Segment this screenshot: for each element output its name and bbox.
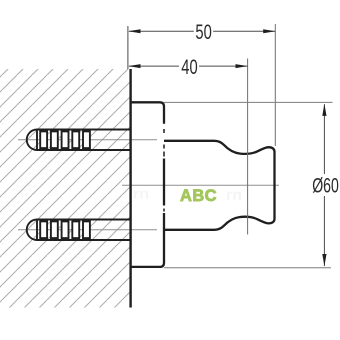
screw S2 (wall anchor, bottom) [27, 220, 131, 241]
dim 50 arrows [128, 29, 275, 33]
wall face line [129, 69, 131, 308]
dim 40 arrows [128, 64, 248, 68]
svg-text:ABC: ABC [180, 186, 217, 205]
extension line for 50 [274, 24, 276, 146]
wall (hatched section) [0, 69, 131, 308]
extension line for 40 [247, 59, 249, 235]
dim 50 line [129, 30, 275, 32]
flange plate (wall plate of holder) [131, 102, 164, 267]
dim D60 line [323, 104, 325, 266]
screw S1 centerline [18, 139, 157, 141]
dim 40 line [129, 65, 247, 67]
extension line above wall face [127, 26, 129, 69]
svg-text:Ø60: Ø60 [312, 174, 339, 197]
fixture centerline [122, 184, 279, 186]
extension line D60 top [164, 101, 333, 103]
screw S2 centerline [18, 229, 157, 231]
svg-text:rn: rn [226, 187, 242, 204]
svg-text:rn: rn [133, 186, 149, 203]
flange hidden hole edges (dashes) [163, 129, 165, 212]
svg-text:40: 40 [181, 55, 197, 79]
svg-text:50: 50 [195, 20, 211, 44]
dim D60 arrows [322, 104, 326, 267]
extension line D60 bottom [164, 267, 331, 269]
holder body profile [164, 141, 275, 230]
screw S1 (wall anchor, top) [27, 130, 131, 151]
